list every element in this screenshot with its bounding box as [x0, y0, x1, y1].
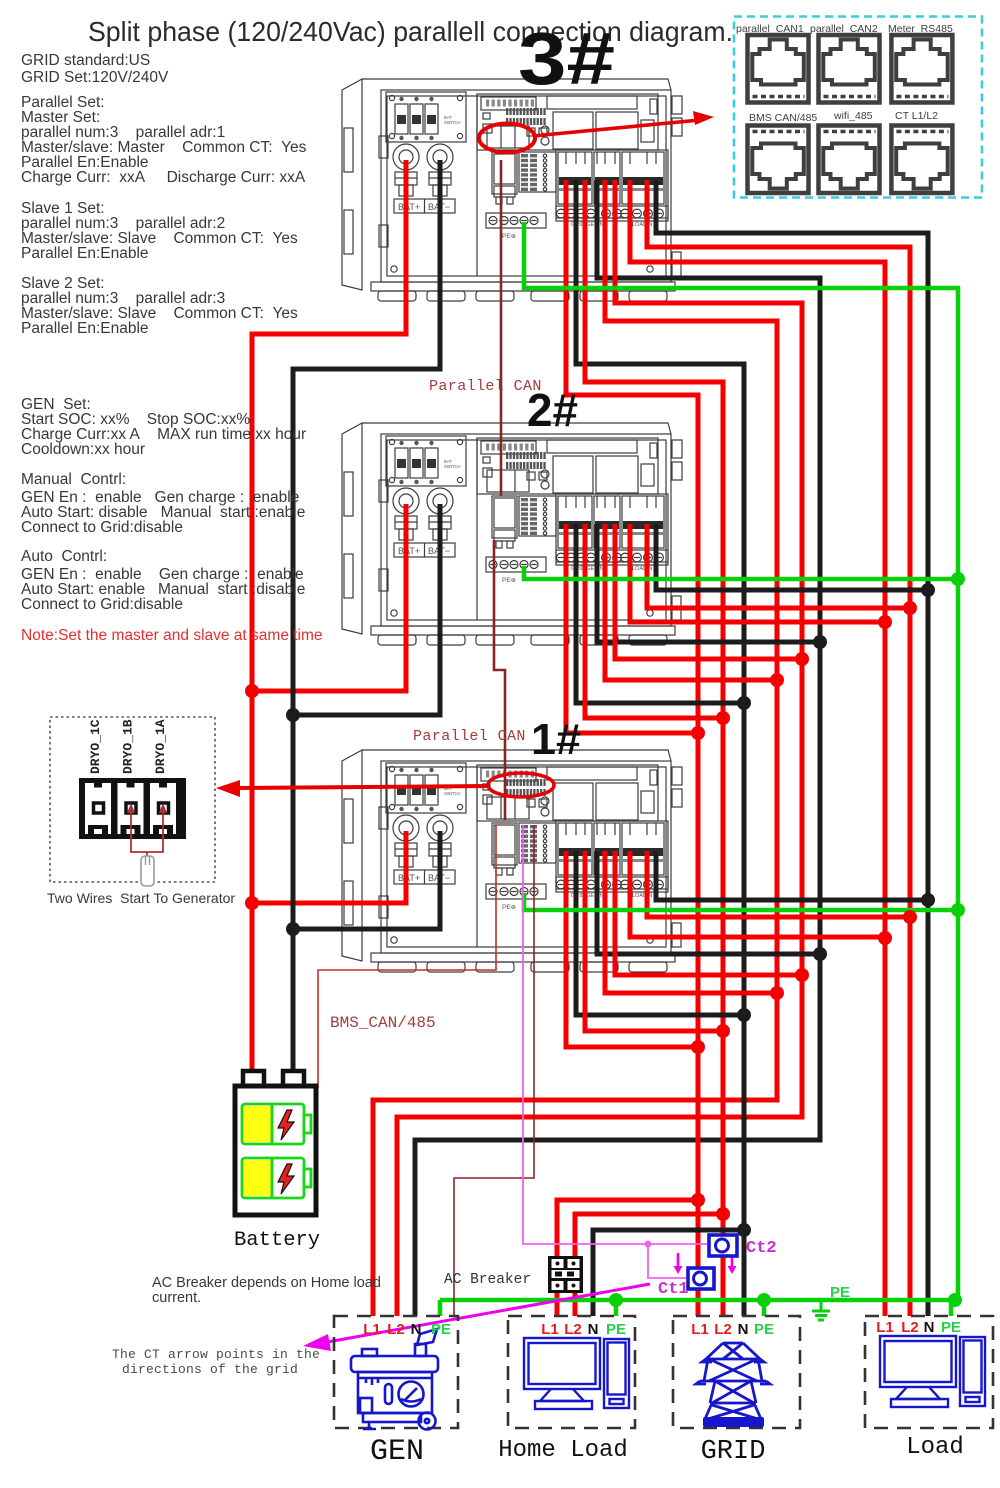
svg-text:Connect to Grid:disable: Connect to Grid:disable [21, 519, 183, 536]
svg-text:PE: PE [431, 1321, 451, 1338]
svg-text:directions of the grid: directions of the grid [122, 1362, 298, 1377]
svg-text:BMS CAN/485: BMS CAN/485 [749, 112, 817, 124]
svg-text:PE: PE [606, 1321, 626, 1338]
svg-text:GRID standard:US: GRID standard:US [21, 52, 150, 69]
svg-text:N: N [588, 1321, 599, 1338]
svg-text:Split phase (120/240Vac) paral: Split phase (120/240Vac) parallell conne… [88, 16, 733, 47]
svg-text:Load: Load [906, 1434, 964, 1461]
svg-text:Parallel En:Enable: Parallel En:Enable [21, 320, 149, 337]
svg-text:parallel_CAN1: parallel_CAN1 [736, 23, 804, 35]
svg-text:GRID: GRID [701, 1437, 766, 1467]
svg-text:AC Breaker: AC Breaker [444, 1272, 531, 1288]
svg-text:L1: L1 [363, 1321, 381, 1338]
svg-text:Parallel En:Enable: Parallel En:Enable [21, 245, 149, 262]
svg-text:Auto Contrl:: Auto Contrl: [21, 548, 107, 565]
svg-text:Parallel CAN: Parallel CAN [413, 728, 526, 745]
svg-text:Ct2: Ct2 [746, 1239, 777, 1258]
svg-text:Connect to Grid:disable: Connect to Grid:disable [21, 596, 183, 613]
svg-text:Meter_RS485: Meter_RS485 [888, 23, 953, 35]
svg-text:AC Breaker depends on Home loa: AC Breaker depends on Home load [152, 1275, 381, 1291]
svg-text:parallel_CAN2: parallel_CAN2 [810, 23, 878, 35]
svg-text:The CT arrow points in the: The CT arrow points in the [112, 1347, 320, 1362]
svg-text:L1: L1 [541, 1321, 559, 1338]
svg-text:L1: L1 [876, 1319, 894, 1336]
svg-text:L2: L2 [564, 1321, 582, 1338]
svg-text:L2: L2 [387, 1321, 405, 1338]
svg-text:current.: current. [152, 1290, 201, 1306]
svg-text:wifi_485: wifi_485 [833, 110, 873, 122]
svg-text:1#: 1# [531, 715, 581, 764]
svg-text:PE: PE [941, 1319, 961, 1336]
svg-text:BMS_CAN/485: BMS_CAN/485 [330, 1014, 436, 1032]
svg-text:Ct1: Ct1 [658, 1280, 689, 1299]
svg-text:N: N [411, 1321, 422, 1338]
svg-text:3#: 3# [518, 17, 615, 100]
svg-text:Cooldown:xx hour: Cooldown:xx hour [21, 441, 145, 458]
svg-text:DRYO_1A: DRYO_1A [153, 719, 168, 774]
svg-text:Manual Contrl:: Manual Contrl: [21, 471, 126, 488]
svg-text:Parallel CAN: Parallel CAN [429, 378, 542, 395]
svg-text:Home Load: Home Load [498, 1437, 628, 1464]
svg-text:Two Wires Start To Generator: Two Wires Start To Generator [47, 890, 235, 906]
svg-text:Battery: Battery [234, 1229, 320, 1252]
svg-text:N: N [738, 1321, 749, 1338]
svg-text:GEN: GEN [370, 1435, 424, 1469]
svg-text:PE: PE [754, 1321, 774, 1338]
svg-text:N: N [924, 1319, 935, 1336]
svg-text:PE: PE [830, 1284, 850, 1301]
svg-text:L2: L2 [714, 1321, 732, 1338]
svg-text:DRYO_1C: DRYO_1C [88, 719, 103, 774]
svg-text:DRYO_1B: DRYO_1B [121, 719, 136, 774]
svg-text:Charge Curr: xxA Discharg: Charge Curr: xxA Discharge Curr: xxA [21, 169, 306, 186]
svg-text:L1: L1 [691, 1321, 709, 1338]
svg-text:L2: L2 [901, 1319, 919, 1336]
svg-text:Note:Set the master and slave: Note:Set the master and slave at same ti… [21, 627, 323, 644]
svg-text:CT L1/L2: CT L1/L2 [895, 110, 938, 122]
svg-text:GRID Set:120V/240V: GRID Set:120V/240V [21, 69, 169, 86]
